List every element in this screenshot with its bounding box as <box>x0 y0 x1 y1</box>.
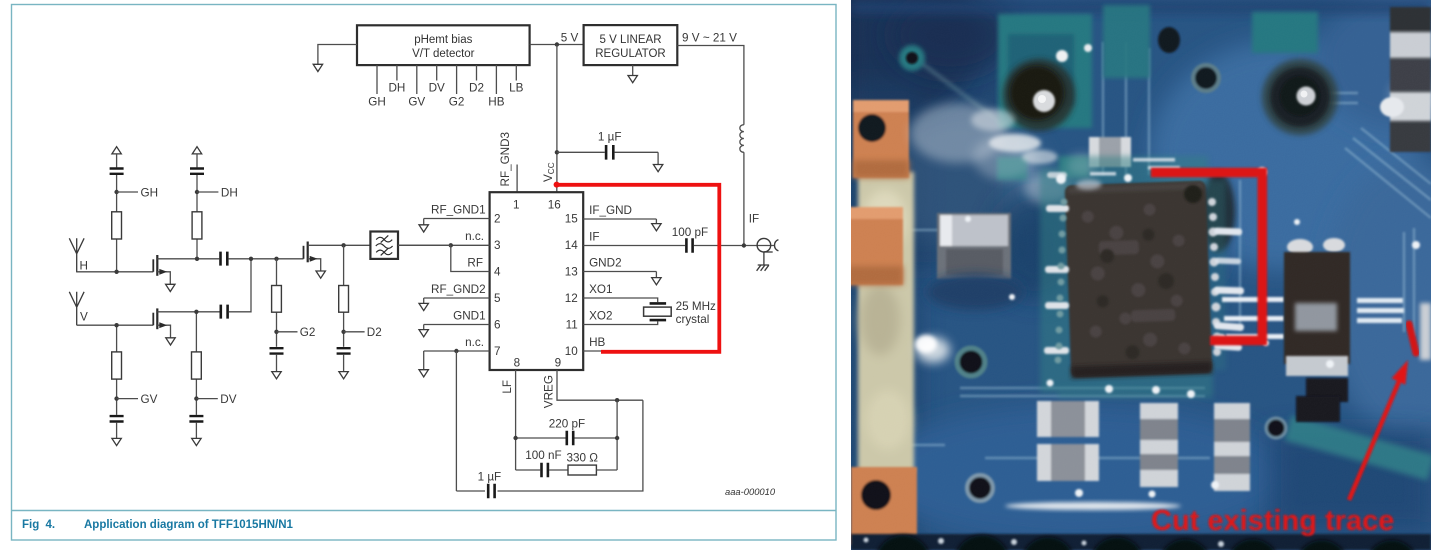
svg-text:GV: GV <box>141 393 158 406</box>
pin 5 wire RF_GND2 <box>424 283 490 298</box>
capacitor coupling H <box>221 252 228 266</box>
svg-text:9: 9 <box>555 357 562 370</box>
ground pHemt <box>313 64 322 71</box>
ground D2 <box>339 372 348 379</box>
pin 11 wire XO2 <box>583 310 658 325</box>
wire DH chain <box>196 175 198 259</box>
svg-text:GH: GH <box>368 96 386 109</box>
wire 5V vertical to VCC <box>556 45 558 184</box>
IC right pin leads <box>1214 228 1244 351</box>
node D2 top <box>341 243 345 247</box>
svg-text:VREG: VREG <box>543 375 556 408</box>
ground GND1 <box>419 325 428 337</box>
capacitor GH <box>110 169 124 174</box>
resistor GH <box>112 212 122 239</box>
inductor L1 <box>740 125 744 153</box>
small vias top <box>906 27 1219 91</box>
red arrow <box>1349 360 1408 500</box>
node pin7 to bottom loop <box>454 349 458 353</box>
bottom connector band <box>851 502 1431 550</box>
IC left pin stubs <box>1044 172 1069 354</box>
svg-text:6: 6 <box>494 319 501 332</box>
wire Q3 drain to filter <box>344 244 371 246</box>
wire regulator to supply <box>677 46 744 125</box>
pin 1 stub RF_GND3 <box>516 165 518 193</box>
antenna V <box>69 292 88 325</box>
node DH to drain line <box>195 257 199 261</box>
wire GV to ground <box>116 423 118 439</box>
svg-text:IF: IF <box>749 213 759 226</box>
resistor DV <box>192 352 202 379</box>
bias stub GV <box>408 65 425 108</box>
svg-text:330 Ω: 330 Ω <box>566 452 598 465</box>
node merge <box>249 257 253 261</box>
svg-text:9 V ~ 21 V: 9 V ~ 21 V <box>682 32 737 45</box>
svg-text:1 µF: 1 µF <box>598 131 622 144</box>
capacitor column bottom b <box>1140 403 1178 487</box>
copper traces <box>900 42 1431 458</box>
svg-text:pHemt bias: pHemt bias <box>414 34 472 46</box>
block pHemt bias V/T detector <box>357 25 530 65</box>
pin 3 wire n.c. <box>398 230 490 245</box>
svg-text:HB: HB <box>488 96 504 109</box>
silver crystal can mid-left <box>937 213 1011 279</box>
svg-text:10: 10 <box>565 345 579 358</box>
svg-text:n.c.: n.c. <box>465 336 484 349</box>
svg-text:RF: RF <box>467 257 483 270</box>
wire filter to IC <box>398 244 451 246</box>
node DH <box>195 187 238 200</box>
bright pin bars left of diode <box>1222 297 1284 339</box>
wire D2 to ground <box>343 355 345 372</box>
filter FL1 <box>370 232 398 259</box>
capacitor GV <box>110 416 124 421</box>
mount hole 1 <box>971 44 1092 164</box>
svg-text:DH: DH <box>388 82 405 95</box>
svg-text:100 pF: 100 pF <box>672 226 708 239</box>
copper pad 1 <box>853 100 909 178</box>
pin 15 wire IF_GND <box>583 204 656 219</box>
node 5V <box>555 42 559 46</box>
glint bars above IC <box>1090 158 1180 176</box>
component right edge small <box>1420 303 1431 360</box>
node GH to H line <box>114 270 118 274</box>
figure frame <box>12 5 837 541</box>
transistor Q3 <box>304 242 344 279</box>
trace mod VCC to HB (red) <box>557 185 720 352</box>
bias stub G2 <box>449 65 465 108</box>
svg-text:15: 15 <box>565 213 579 226</box>
node D2 <box>341 326 381 339</box>
pin 12 wire XO1 <box>583 283 658 302</box>
pin 7 wire n.c. <box>424 336 490 351</box>
pin 13 wire GND2 <box>583 257 656 272</box>
cream substrate strip <box>858 172 914 472</box>
capacitor 1 uF (VCC decoupling) <box>557 131 658 160</box>
capacitor pair bottom a <box>1037 401 1099 481</box>
glints <box>965 167 1420 498</box>
copper pad 2 <box>845 207 903 285</box>
pin 10 wire HB <box>583 336 605 351</box>
svg-text:REGULATOR: REGULATOR <box>595 48 666 60</box>
mount hole 2 <box>1262 59 1338 135</box>
red cut mark on trace <box>1409 324 1416 353</box>
capacitor DV <box>189 416 203 421</box>
wire G2 chain <box>276 259 278 347</box>
ground pin 7 <box>419 351 428 377</box>
small black relay bottom-mid <box>1296 396 1340 422</box>
bias stub LB <box>509 65 524 94</box>
IF connector J1 <box>757 238 779 270</box>
capacitor 1 uF (bottom) <box>456 471 501 499</box>
pin 8 stub LF <box>515 370 517 470</box>
pin 16 stub VCC <box>556 183 558 192</box>
bias stub GH <box>368 65 386 108</box>
node VREG right <box>615 398 619 402</box>
diode black body right of IC <box>1284 238 1350 402</box>
ground GV <box>112 438 121 445</box>
node LF 220pF <box>513 436 517 440</box>
svg-text:13: 13 <box>565 266 578 279</box>
solder pads / tinned areas <box>899 5 1318 180</box>
capacitor column bottom c <box>1214 403 1250 491</box>
svg-text:Application diagram of TFF1015: Application diagram of TFF1015HN/N1 <box>84 519 294 531</box>
node right 220pF <box>615 436 619 440</box>
svg-text:8: 8 <box>514 357 521 370</box>
wire D2 chain <box>343 245 345 346</box>
node DV <box>194 393 237 406</box>
pin 2 wire RF_GND1 <box>424 204 490 219</box>
wire G2 to ground <box>276 355 278 372</box>
wire DV chain <box>195 312 197 415</box>
IC chip <box>1064 176 1212 379</box>
caption rule <box>12 510 837 512</box>
resistor DH <box>192 212 202 239</box>
svg-text:3: 3 <box>494 239 501 252</box>
pcb base <box>851 0 1431 550</box>
capacitor G2 <box>270 348 284 353</box>
node DV top <box>194 310 198 314</box>
crystal X1 25 MHz <box>644 300 716 326</box>
node RF input <box>449 243 453 247</box>
node IF out <box>742 243 746 247</box>
svg-text:n.c.: n.c. <box>465 230 484 243</box>
node GH <box>114 187 158 200</box>
svg-text:DV: DV <box>220 393 236 406</box>
wire GV chain <box>116 325 118 415</box>
svg-text:HB: HB <box>589 336 605 349</box>
svg-text:aaa-000010: aaa-000010 <box>725 486 776 497</box>
antenna H <box>69 238 88 272</box>
capacitor 100 pF <box>672 226 708 253</box>
teal swoosh trace bottom right <box>1288 428 1431 468</box>
wire pHemt left <box>318 45 357 65</box>
ground 1uF <box>653 152 662 171</box>
block 5V linear regulator <box>584 25 678 65</box>
IC U1 TFF1015HN <box>490 192 584 370</box>
svg-text:crystal: crystal <box>676 313 710 326</box>
bias stub D2 <box>469 65 484 94</box>
ground RF_GND2 <box>419 298 428 311</box>
svg-text:Cut existing trace: Cut existing trace <box>1151 505 1394 537</box>
node GV top <box>114 323 118 327</box>
svg-text:G2: G2 <box>300 326 316 339</box>
svg-text:RF_GND3: RF_GND3 <box>499 132 512 187</box>
wire VREG node down <box>616 400 618 470</box>
resistor G2 <box>272 286 282 313</box>
bias stub DH <box>388 65 405 94</box>
capacitor DH <box>190 169 204 174</box>
pin 14 wire IF <box>583 231 774 246</box>
resistor GV <box>112 352 122 379</box>
svg-text:GND1: GND1 <box>453 310 485 323</box>
wire pin7 node down <box>455 351 457 491</box>
svg-text:RF_GND1: RF_GND1 <box>431 204 486 217</box>
ground DV <box>192 438 201 445</box>
svg-text:5: 5 <box>494 292 501 305</box>
svg-text:11: 11 <box>566 319 578 332</box>
flux smudges <box>910 77 1431 363</box>
wire DV to ground <box>195 423 197 439</box>
transistor Q2 <box>153 308 219 345</box>
node G2 <box>274 326 315 339</box>
IC left pin dots <box>1055 199 1068 364</box>
wire GH chain <box>116 175 118 272</box>
component right edge tall <box>1380 7 1431 152</box>
svg-text:14: 14 <box>565 239 579 252</box>
ground RF_GND1 <box>419 219 428 233</box>
bias chain GH : supply arrow <box>112 147 121 168</box>
svg-text:16: 16 <box>548 199 561 212</box>
small silver component above IC <box>1089 137 1131 167</box>
svg-text:2: 2 <box>494 213 501 226</box>
svg-text:V: V <box>80 311 88 324</box>
caption Fig 4 <box>22 519 294 531</box>
wire H to Q1 gate <box>77 271 154 273</box>
svg-text:LF: LF <box>501 380 514 394</box>
svg-text:XO1: XO1 <box>589 283 612 296</box>
svg-text:D2: D2 <box>367 326 382 339</box>
copper pad 3 <box>851 467 917 545</box>
bias stub DV <box>429 65 445 94</box>
svg-text:DV: DV <box>429 82 445 95</box>
bias chain DH : supply arrow <box>192 147 201 168</box>
wire right loop down <box>498 400 643 491</box>
ground G2 <box>272 372 281 379</box>
svg-text:IF: IF <box>589 231 599 244</box>
ground IF_GND <box>652 219 661 231</box>
node GV <box>114 393 157 406</box>
pin 9 stub VREG <box>557 370 643 400</box>
svg-text:DH: DH <box>221 187 238 200</box>
bias stub HB <box>488 65 504 108</box>
teal solder area around IC <box>1040 156 1226 398</box>
transistor Q1 <box>153 255 219 292</box>
wire inductor to IF line <box>743 152 745 245</box>
pin 6 wire GND1 <box>424 310 490 325</box>
node VCC red <box>554 182 560 188</box>
wire V to Q2 gate <box>77 324 154 326</box>
svg-text:RF_GND2: RF_GND2 <box>431 283 486 296</box>
svg-text:1: 1 <box>513 199 520 212</box>
via bottom-mid <box>1266 418 1286 438</box>
svg-text:GND2: GND2 <box>589 257 621 270</box>
IC right solder dots <box>1208 198 1222 356</box>
ground GND2 <box>652 272 661 285</box>
svg-text:5 V: 5 V <box>561 32 579 45</box>
via bottom-left <box>967 475 993 501</box>
svg-text:220 pF: 220 pF <box>549 417 585 430</box>
resistor D2 <box>339 286 349 313</box>
svg-text:7: 7 <box>494 345 501 358</box>
svg-text:GH: GH <box>141 187 159 200</box>
dark shade left of hole2 <box>1201 172 1235 252</box>
resistor 330 ohm <box>566 452 617 476</box>
node G2 top <box>274 257 278 261</box>
svg-text:LB: LB <box>509 82 524 95</box>
svg-text:V/T detector: V/T detector <box>412 48 475 60</box>
pin 4 wire RF <box>451 245 490 271</box>
bright trace bars near cut point <box>1357 298 1404 323</box>
node 1uF tap <box>555 150 559 154</box>
svg-text:12: 12 <box>565 292 578 305</box>
svg-text:H: H <box>80 260 88 273</box>
jumper wire top-left <box>920 62 1000 122</box>
svg-text:1 µF: 1 µF <box>478 471 502 484</box>
wire H drain to merge <box>229 258 304 260</box>
svg-text:100 nF: 100 nF <box>525 449 561 462</box>
via mid-left teal ring <box>957 348 985 376</box>
svg-text:Fig 4.: Fig 4. <box>22 519 55 531</box>
ground regulator <box>628 65 637 83</box>
film grain <box>851 0 1431 550</box>
svg-text:5 V LINEAR: 5 V LINEAR <box>600 34 662 46</box>
red highlight bracket (VCC-HB mod) <box>1151 173 1262 341</box>
svg-text:GV: GV <box>408 96 425 109</box>
capacitor 220 pF <box>516 417 618 445</box>
wire pHemt to regulator <box>530 44 584 46</box>
svg-text:G2: G2 <box>449 96 465 109</box>
capacitor 100 nF <box>516 449 568 477</box>
svg-text:XO2: XO2 <box>589 310 612 323</box>
svg-text:25 MHz: 25 MHz <box>676 300 716 313</box>
svg-text:D2: D2 <box>469 82 484 95</box>
svg-text:IF_GND: IF_GND <box>589 204 632 217</box>
svg-text:4: 4 <box>494 266 501 279</box>
capacitor coupling V <box>221 305 228 319</box>
wire V drain to merge <box>229 259 251 312</box>
capacitor D2 <box>337 348 351 353</box>
